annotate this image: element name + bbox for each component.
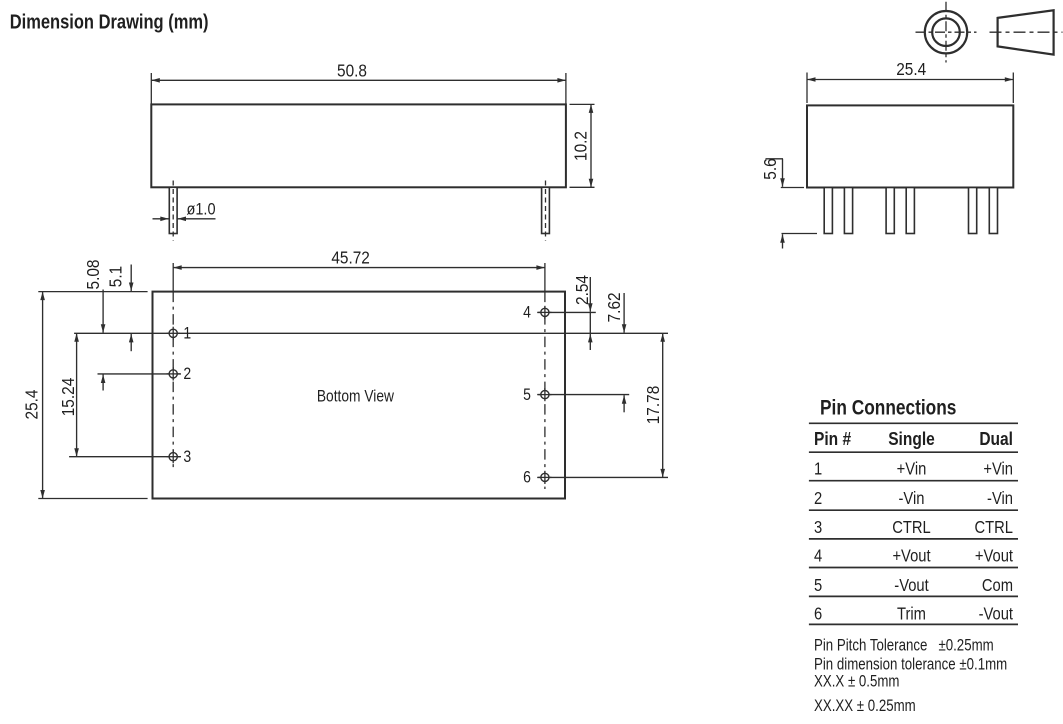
dim 15.24 line	[76, 333, 78, 456]
svg-text:4: 4	[523, 304, 531, 322]
dim 5.6 upper arrow	[782, 159, 784, 187]
dim 5.08 upper arrow	[102, 290, 104, 333]
svg-text:Com: Com	[982, 576, 1013, 596]
right pin column centerline	[544, 292, 546, 489]
pin side-profile icon (trapezoid)	[998, 10, 1054, 54]
svg-text:25.4: 25.4	[896, 60, 926, 79]
table rule 6	[809, 567, 1018, 569]
end view pin 5	[969, 188, 977, 234]
dim 45.72 line	[173, 267, 545, 269]
svg-text:45.72: 45.72	[331, 249, 370, 268]
dim ø1.0 left arrow	[153, 218, 169, 220]
svg-text:XX.X ± 0.5mm: XX.X ± 0.5mm	[814, 672, 899, 691]
svg-text:Pin #: Pin #	[814, 429, 852, 450]
dim 17.78 line	[662, 333, 664, 477]
dim 2.54 mid connector	[589, 312, 591, 333]
table rule 2	[809, 451, 1018, 453]
dim 5.1 upper arrow	[130, 265, 132, 292]
table rule 4	[809, 509, 1018, 511]
svg-text:+Vout: +Vout	[975, 546, 1014, 566]
pin side-profile centerline	[990, 31, 1063, 33]
table rule 8	[809, 623, 1018, 625]
svg-text:5: 5	[814, 576, 822, 596]
svg-text:1: 1	[814, 459, 822, 479]
svg-text:15.24: 15.24	[59, 378, 78, 417]
dim 5.1 lower arrow	[130, 334, 132, 351]
svg-text:+Vin: +Vin	[983, 459, 1013, 479]
svg-text:1: 1	[183, 324, 191, 342]
side view right pin	[542, 187, 550, 233]
svg-text:2.54: 2.54	[573, 275, 592, 305]
svg-text:Pin Pitch Tolerance ±0.25mm: Pin Pitch Tolerance ±0.25mm	[814, 636, 994, 655]
dim 5.6 top tick	[766, 158, 784, 160]
pin 5 symbol	[541, 391, 549, 399]
svg-text:2: 2	[814, 489, 822, 509]
svg-text:5.1: 5.1	[107, 266, 126, 287]
dim 45.72 extension right	[544, 263, 546, 292]
svg-text:CTRL: CTRL	[974, 518, 1013, 538]
dim 7.62 lower arrow	[623, 395, 625, 412]
dim 5.6 module-bottom extension	[781, 187, 804, 189]
dim 10.2 line	[590, 104, 592, 187]
left pin column centerline	[172, 292, 174, 471]
svg-text:Dimension Drawing (mm): Dimension Drawing (mm)	[10, 10, 209, 33]
svg-text:17.78: 17.78	[644, 386, 663, 425]
bottom view module body	[153, 292, 566, 499]
pin 3 row line	[69, 456, 181, 458]
dim 7.62 upper arrow	[623, 293, 625, 333]
svg-text:4: 4	[814, 546, 822, 566]
svg-text:+Vout: +Vout	[892, 546, 931, 566]
svg-text:6: 6	[814, 604, 822, 624]
pin 2 row line	[98, 373, 182, 375]
end view dim 25.4 extension lines	[806, 73, 808, 104]
svg-text:Bottom View: Bottom View	[317, 387, 395, 406]
end view pin 1	[824, 188, 832, 234]
pin 4 symbol	[541, 308, 549, 316]
dim 5.6 pin-bottom extension	[782, 233, 818, 235]
svg-text:2: 2	[183, 365, 191, 383]
svg-text:Trim: Trim	[897, 604, 926, 624]
pin 6 symbol	[541, 473, 549, 481]
end view dim 25.4 line	[807, 79, 1013, 81]
svg-text:5.08: 5.08	[84, 260, 103, 290]
side view module body	[151, 104, 566, 187]
svg-text:7.62: 7.62	[605, 292, 624, 322]
svg-text:Dual: Dual	[979, 429, 1013, 450]
dim 50.8 extension lines	[150, 73, 152, 104]
svg-text:3: 3	[183, 448, 191, 466]
svg-text:-Vout: -Vout	[979, 604, 1014, 624]
end view pin 6	[989, 188, 997, 234]
pin 4 row line	[537, 311, 596, 313]
svg-text:XX.XX ± 0.25mm: XX.XX ± 0.25mm	[814, 697, 916, 716]
svg-text:6: 6	[523, 469, 531, 487]
svg-text:+Vin: +Vin	[897, 459, 927, 479]
dim 25.4 line	[42, 292, 44, 499]
svg-text:Pin Connections: Pin Connections	[820, 396, 957, 420]
side view left pin centerline	[172, 181, 174, 241]
svg-text:-Vout: -Vout	[894, 576, 929, 596]
dim 50.8 line	[151, 79, 566, 81]
dim 2.54 upper arrow	[589, 277, 591, 312]
svg-text:5: 5	[523, 386, 531, 404]
table rule 1	[809, 422, 1018, 424]
pin icon vertical centerline	[945, 2, 947, 63]
table rule 7	[809, 595, 1018, 597]
svg-text:10.2: 10.2	[572, 131, 591, 161]
table rule 5	[809, 538, 1018, 540]
dim 5.6 lower arrow	[782, 234, 784, 248]
pin icon horizontal centerline	[916, 31, 977, 33]
end view pin 3	[886, 188, 894, 234]
svg-text:50.8: 50.8	[337, 62, 367, 81]
table rule 3	[809, 480, 1018, 482]
pin 3 symbol	[169, 453, 177, 461]
dim 25.4 bottom extension	[38, 498, 147, 500]
pin 2 symbol	[169, 370, 177, 378]
dim ø1.0 right arrow	[178, 218, 216, 220]
dim 5.08 lower arrow	[102, 375, 104, 391]
side view right pin centerline	[545, 181, 547, 241]
side view left pin	[169, 187, 177, 233]
pin 1 row reference line	[74, 332, 668, 334]
dim 2.54 lower arrow	[589, 334, 591, 350]
svg-text:25.4: 25.4	[23, 390, 42, 420]
pin 5 row line	[537, 394, 629, 396]
dim 10.2 extension ticks	[570, 103, 595, 105]
svg-text:-Vin: -Vin	[899, 489, 925, 509]
pin cross-section icon (outer circle)	[925, 11, 967, 53]
pin 6 row line	[537, 476, 668, 478]
svg-text:Single: Single	[888, 429, 935, 450]
end view pin 4	[906, 188, 914, 234]
svg-text:3: 3	[814, 518, 822, 538]
dim 45.72 extension left	[172, 263, 174, 292]
end view module body	[807, 105, 1013, 187]
pin cross-section icon (inner circle)	[932, 18, 960, 46]
end view pin 2	[844, 188, 852, 234]
svg-text:ø1.0: ø1.0	[187, 200, 216, 218]
svg-text:-Vin: -Vin	[987, 489, 1013, 509]
dim 25.4 top extension	[38, 291, 147, 293]
pin 1 symbol	[169, 329, 177, 337]
svg-text:5.6: 5.6	[761, 158, 780, 179]
svg-text:CTRL: CTRL	[892, 518, 931, 538]
